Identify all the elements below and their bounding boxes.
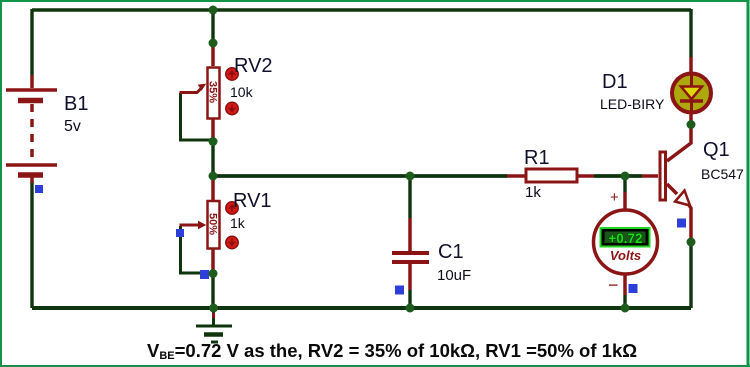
svg-text:−: − (608, 275, 619, 295)
svg-text:5v: 5v (64, 118, 81, 135)
battery B1 (6, 75, 57, 183)
svg-text:50%: 50% (207, 213, 219, 235)
wire mid rail right (R1 to base node) (594, 174, 642, 178)
pot button up RV1 (226, 202, 238, 214)
svg-text:D1: D1 (602, 71, 628, 93)
node RV1 bottom (209, 269, 218, 278)
svg-text:RV1: RV1 (233, 190, 272, 212)
node ground (209, 304, 218, 313)
svg-text:+: + (610, 189, 619, 206)
svg-text:R1: R1 (524, 147, 550, 169)
node emitter (687, 238, 696, 247)
wire ground stem (212, 310, 215, 326)
voltmeter (594, 192, 658, 295)
node voltmeter rail (621, 304, 630, 313)
node top rail RV2 (209, 6, 218, 15)
wire right drop to LED (689, 9, 692, 57)
wire left drop to battery (30, 9, 33, 75)
pot button up RV2 (226, 68, 238, 80)
node C1 top (406, 172, 415, 181)
potentiometer RV1 (180, 178, 220, 272)
svg-text:10uF: 10uF (437, 267, 471, 284)
handle RV1 bottom (200, 270, 209, 279)
svg-text:35%: 35% (207, 81, 219, 103)
svg-text:Q1: Q1 (703, 139, 730, 161)
pot button down RV2 (226, 102, 238, 114)
node mid left (209, 172, 218, 181)
border frame (0, 0, 2, 367)
wire bottom rail (32, 306, 691, 310)
node RV2 bottom (209, 137, 218, 146)
capacitor C1 (392, 218, 429, 290)
wire RV1 wiper loop (181, 226, 212, 273)
wire C1 top (408, 176, 411, 218)
handle RV1 wiper (176, 229, 184, 237)
node C1 bottom rail (406, 304, 415, 313)
handle voltmeter minus (629, 284, 638, 293)
ground (196, 313, 232, 342)
LED D1 (672, 57, 711, 122)
wire top rail (32, 8, 691, 12)
svg-text:RV2: RV2 (234, 55, 273, 77)
svg-text:+0.72: +0.72 (608, 231, 642, 246)
svg-text:Volts: Volts (610, 248, 641, 263)
handle emitter (677, 219, 686, 228)
svg-text:1k: 1k (525, 184, 541, 201)
wire RV2 bottom to mid node (211, 142, 214, 176)
handle C1 (395, 286, 404, 295)
wire RV2 wiper loop (181, 93, 212, 140)
wire RV1 bottom to rail (211, 274, 214, 308)
node base (621, 172, 630, 181)
wire C1 bottom (408, 290, 411, 308)
svg-text:LED-BIRY: LED-BIRY (600, 96, 665, 112)
svg-text:10k: 10k (230, 84, 254, 100)
wire mid rail left (node to R1) (213, 174, 507, 178)
node LED collector (687, 120, 696, 129)
pot button down RV1 (226, 236, 238, 248)
wire voltmeter plus (623, 176, 626, 192)
svg-text:C1: C1 (438, 241, 464, 263)
resistor R1 (507, 169, 594, 182)
wire battery negative to bottom rail (30, 182, 33, 308)
node RV2 top (209, 39, 218, 48)
svg-text:BC547: BC547 (701, 166, 744, 182)
handle battery (35, 185, 43, 193)
wire emitter to bottom rail (689, 242, 692, 308)
wire top rail to RV2 (211, 10, 214, 43)
wire voltmeter minus to rail (623, 295, 626, 308)
transistor Q1 (642, 127, 691, 242)
svg-text:1k: 1k (230, 215, 246, 231)
svg-text:B1: B1 (64, 93, 88, 115)
potentiometer RV2 (180, 45, 220, 141)
svg-text:VBE=0.72 V as the, RV2 = 35% o: VBE=0.72 V as the, RV2 = 35% of 10kΩ, RV… (147, 340, 637, 362)
